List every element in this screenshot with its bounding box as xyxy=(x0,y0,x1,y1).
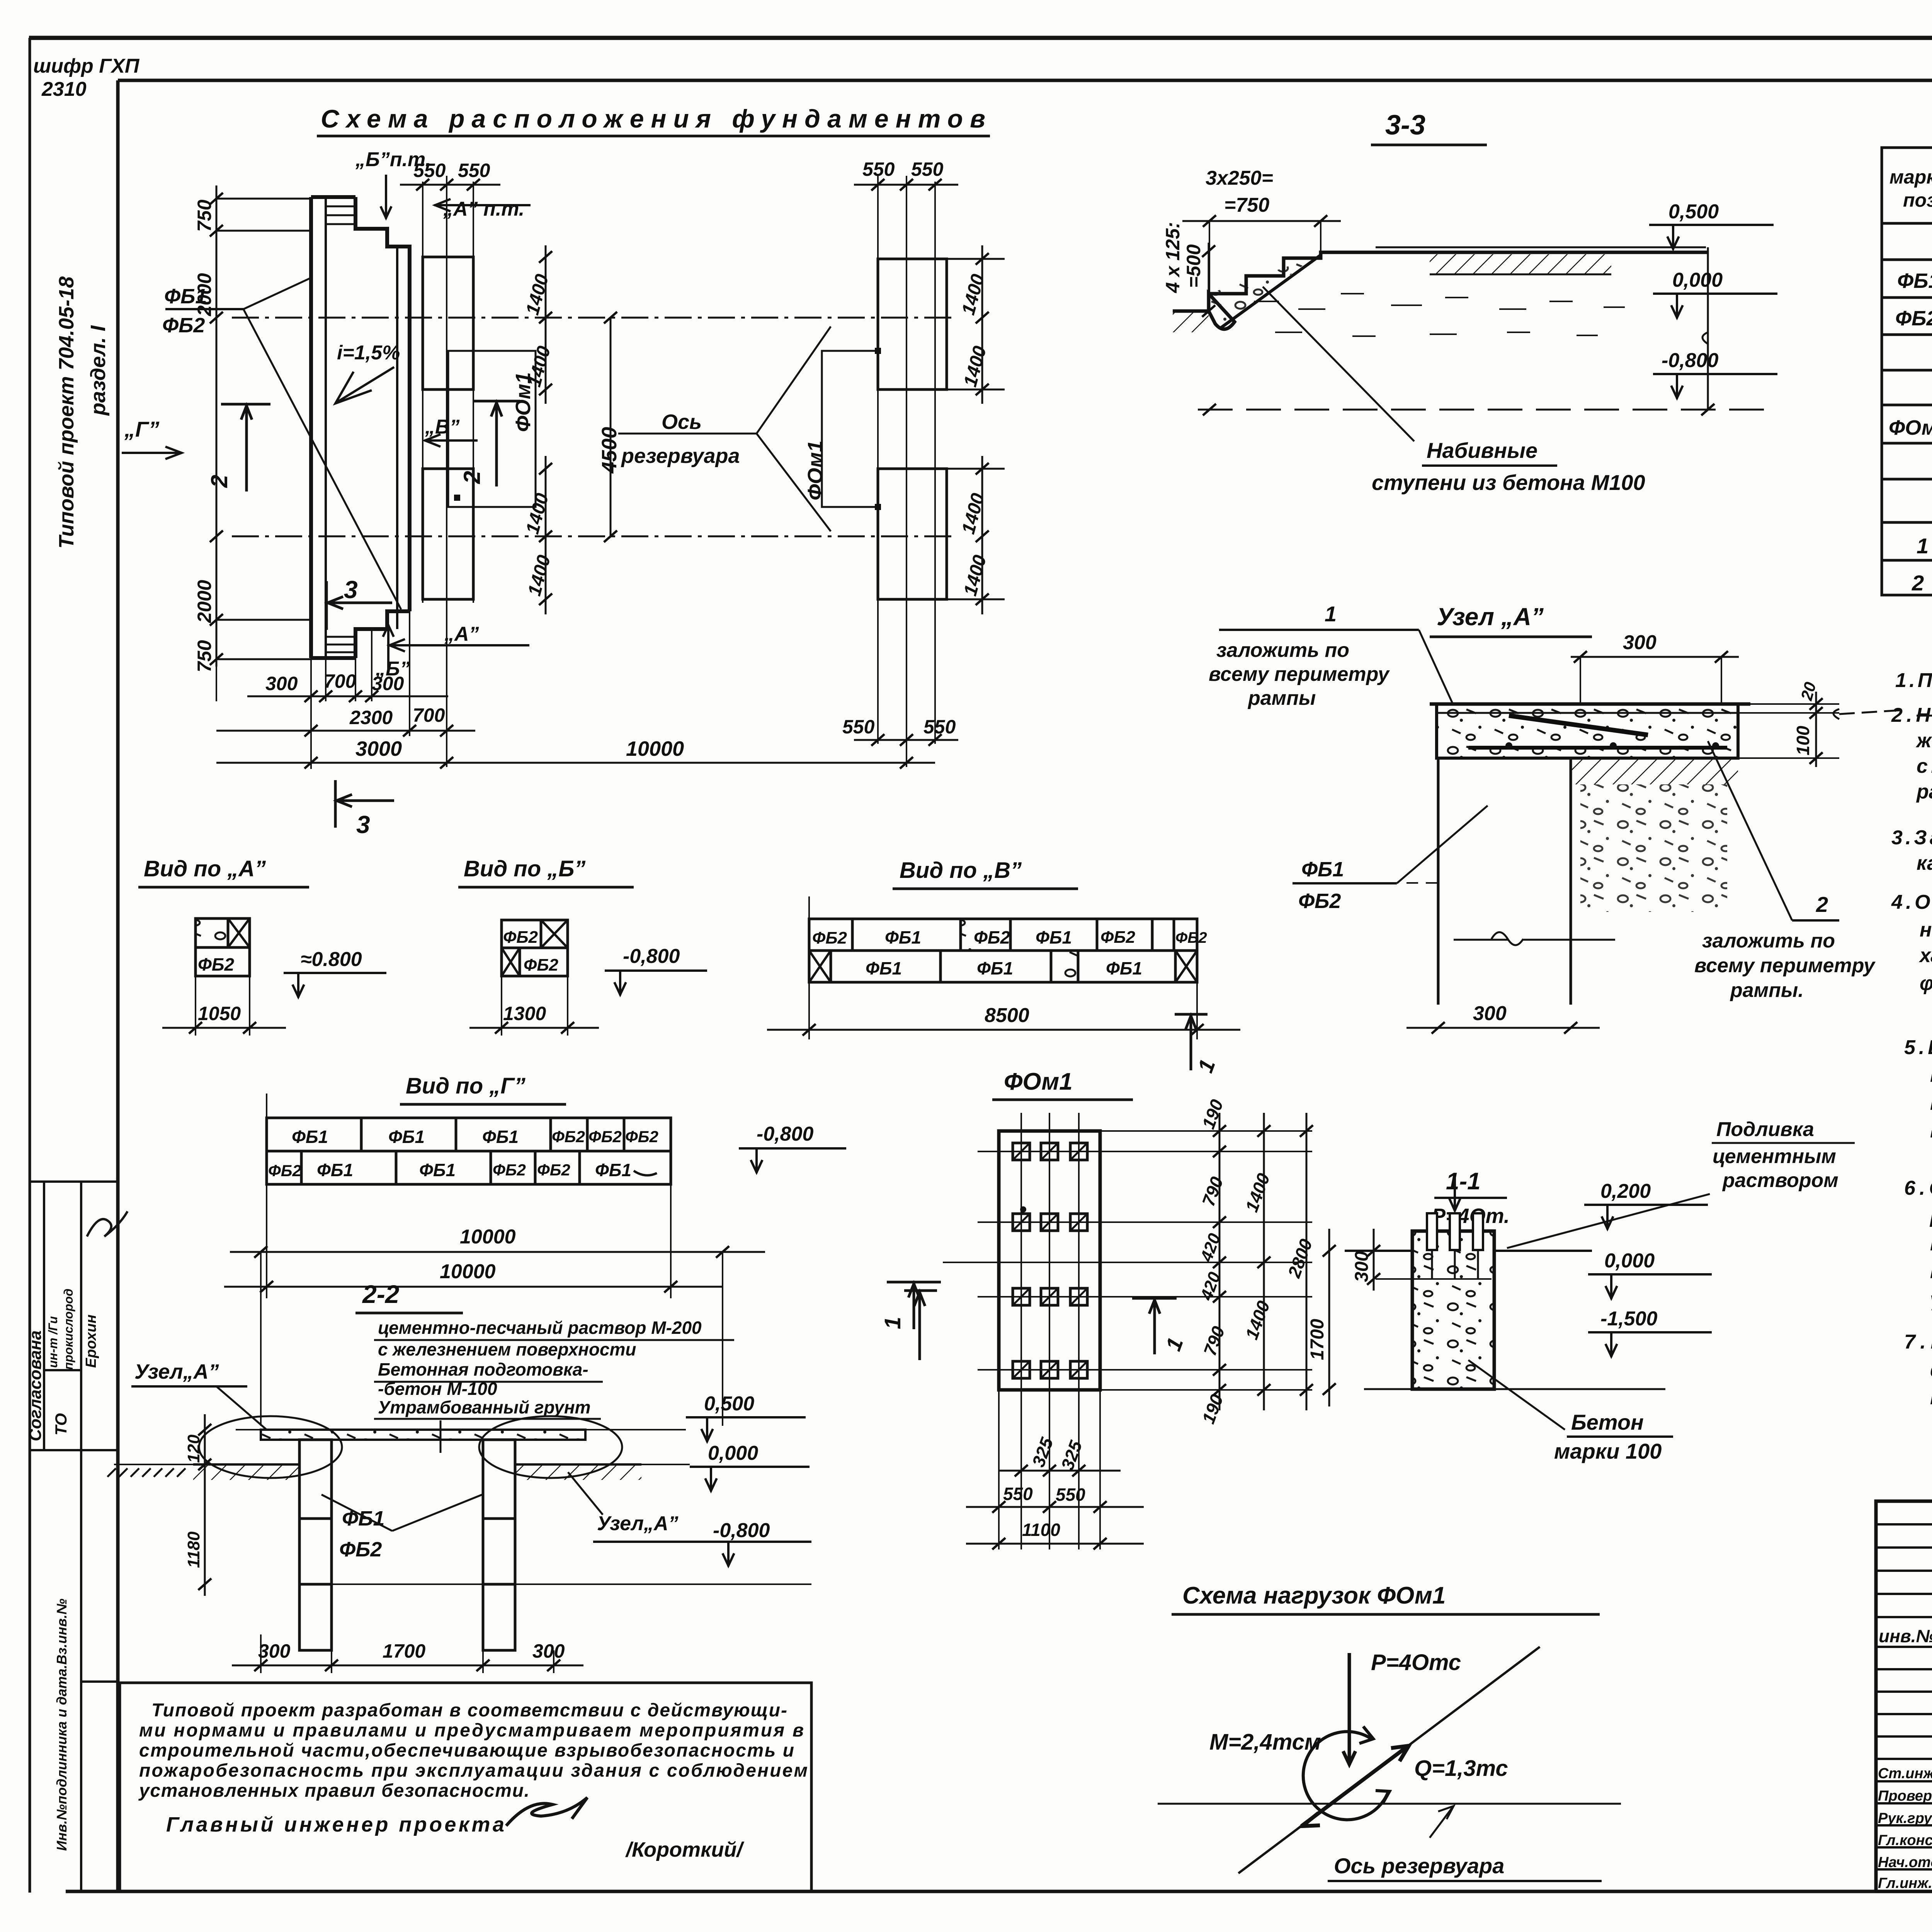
view G wall bottom course xyxy=(267,1151,671,1184)
view G wall top course xyxy=(267,1118,671,1151)
dim 550/550 top-left xyxy=(400,184,500,186)
svg-text:ФБ1: ФБ1 xyxy=(866,958,902,978)
vertical force arrow xyxy=(1343,1653,1355,1765)
svg-text:Инв.№подлинника и дата.Вз.инв.: Инв.№подлинника и дата.Вз.инв.№ xyxy=(54,1599,70,1851)
svg-text:2000: 2000 xyxy=(194,273,215,316)
right wall section 2-2 xyxy=(483,1440,515,1650)
anchor squares row 3 xyxy=(1013,1288,1087,1305)
left group inner dims 1400/1400 (rotated) xyxy=(545,245,547,404)
svg-text:Схема нагрузок ФОм1: Схема нагрузок ФОм1 xyxy=(1182,1582,1446,1609)
svg-text:≈0.800: ≈0.800 xyxy=(301,948,362,971)
svg-text:2310: 2310 xyxy=(41,78,87,100)
oval around left slab end xyxy=(199,1416,342,1478)
svg-text:550: 550 xyxy=(862,158,895,180)
anchor squares row 4 xyxy=(1013,1361,1087,1378)
svg-text:120: 120 xyxy=(184,1434,203,1463)
svg-text:ФОм1: ФОм1 xyxy=(1004,1068,1073,1095)
svg-text:Узел„А”: Узел„А” xyxy=(134,1360,219,1383)
svg-text:ФБ2: ФБ2 xyxy=(493,1161,526,1179)
svg-text:Узел„А”: Узел„А” xyxy=(597,1512,679,1535)
left block wall verticals xyxy=(1438,758,1571,1005)
svg-text:i=1,5%: i=1,5% xyxy=(337,342,400,364)
dim 1700 rotated 1-1 xyxy=(1328,1229,1330,1406)
right dim chain 2 FOm1: 1400 1400 xyxy=(1263,1113,1265,1410)
bottom dim row 3: 3000 and 10000 xyxy=(216,762,935,764)
dim 8500 view V xyxy=(809,896,1197,1039)
foundation rect left upper xyxy=(423,257,473,389)
bottom dim row 1: 300 700 300 xyxy=(247,696,448,697)
svg-text:750: 750 xyxy=(194,199,215,232)
slab rectangle with speckle xyxy=(1437,704,1738,758)
left stamp rows xyxy=(1876,1524,1932,1869)
speckle block xyxy=(197,920,227,947)
svg-text:Ось резервуара: Ось резервуара xyxy=(1334,1854,1504,1878)
svg-text:раздел. I: раздел. I xyxy=(87,325,110,416)
svg-text:ФБ1: ФБ1 xyxy=(388,1127,425,1147)
svg-text:1: 1 xyxy=(1917,534,1929,558)
svg-text:-0,800: -0,800 xyxy=(623,945,680,968)
svg-text:марки 100: марки 100 xyxy=(1554,1439,1662,1463)
bottom reference dashed line xyxy=(1198,409,1770,411)
svg-text:непучинистые,непросадочные гру: непучинистые,непросадочные грунты со сле… xyxy=(1920,919,1932,941)
bottom dim row 2: 2300 700 xyxy=(216,730,475,732)
hatch marks at left ground xyxy=(107,1468,185,1477)
svg-text:ФБ1: ФБ1 xyxy=(1301,858,1344,881)
svg-text:300: 300 xyxy=(1473,1002,1507,1025)
svg-text:3-3: 3-3 xyxy=(1385,110,1425,141)
svg-text:3000: 3000 xyxy=(355,737,402,760)
ground line left xyxy=(193,1463,299,1466)
svg-text:инв.№: инв.№ xyxy=(1879,1626,1932,1646)
svg-text:„Г”: „Г” xyxy=(124,417,159,441)
section mark 1 right of 2-2 xyxy=(887,1282,941,1329)
node dot left xyxy=(454,495,460,501)
left wall section 2-2 xyxy=(299,1440,332,1650)
svg-text:1050: 1050 xyxy=(198,1003,241,1024)
svg-text:Ерохин: Ерохин xyxy=(83,1315,99,1368)
svg-text:резервуара: резервуара xyxy=(621,444,740,468)
section mark 3 lower xyxy=(335,780,394,828)
ground line right xyxy=(515,1463,641,1466)
svg-text:ФБ2: ФБ2 xyxy=(268,1162,301,1180)
svg-text:„В”: „В” xyxy=(425,416,460,438)
svg-text:Гл.инж.пр.: Гл.инж.пр. xyxy=(1878,1875,1932,1891)
svg-text:/Короткий/: /Короткий/ xyxy=(625,1838,744,1861)
svg-text:ФБ1: ФБ1 xyxy=(1106,958,1142,978)
slope under steps xyxy=(1221,255,1321,328)
reservoir axis lower (dash-dot) xyxy=(232,536,954,537)
svg-text:Вид по „В”: Вид по „В” xyxy=(900,858,1022,883)
svg-text:ФОм1: ФОм1 xyxy=(804,440,827,500)
svg-text:550: 550 xyxy=(413,160,446,181)
svg-text:Гл.констр.: Гл.констр. xyxy=(1878,1832,1932,1849)
svg-text:ТО: ТО xyxy=(52,1413,70,1435)
svg-text:1100: 1100 xyxy=(1022,1520,1060,1540)
svg-text:2: 2 xyxy=(206,475,232,488)
section mark 2 right xyxy=(474,401,520,486)
view A blocks xyxy=(196,918,250,976)
svg-text:ФБ2: ФБ2 xyxy=(552,1128,585,1146)
svg-text:ФБ1: ФБ1 xyxy=(292,1127,328,1147)
svg-text:характеристиками:: характеристиками: xyxy=(1918,944,1932,967)
svg-text:ФБ2: ФБ2 xyxy=(162,314,205,337)
svg-text:установленных правил безопас: установленных правил безопасности. xyxy=(138,1781,529,1801)
svg-text:марка,: марка, xyxy=(1889,166,1932,188)
svg-text:Узел „А”: Узел „А” xyxy=(1437,603,1544,631)
dim 300 rotated 1-1 xyxy=(1373,1229,1375,1291)
dim 550/550 bottom-right xyxy=(854,739,958,741)
svg-text:3х250=: 3х250= xyxy=(1206,167,1273,189)
svg-text:заложить по: заложить по xyxy=(1216,639,1349,662)
svg-text:Схема расположения фундаментов: Схема расположения фундаментов xyxy=(321,104,985,133)
svg-text:100: 100 xyxy=(1793,726,1813,755)
svg-text:550: 550 xyxy=(923,716,956,738)
svg-text:4500: 4500 xyxy=(598,427,621,474)
svg-text:550: 550 xyxy=(1056,1485,1085,1505)
oval around right slab end xyxy=(479,1416,622,1478)
svg-text:Набивные: Набивные xyxy=(1427,438,1537,463)
dim 300 top of node A xyxy=(1571,656,1739,658)
svg-text:-бетон М-100: -бетон М-100 xyxy=(378,1379,497,1399)
svg-text:Вид по „А”: Вид по „А” xyxy=(144,856,266,881)
svg-text:3: 3 xyxy=(344,576,358,604)
svg-text:ФБ1: ФБ1 xyxy=(317,1160,353,1180)
svg-text:ФБ2: ФБ2 xyxy=(1298,889,1341,913)
title block outer xyxy=(1876,1501,1932,1891)
dim 10000 above section 2-2 xyxy=(230,1251,765,1253)
svg-text:Типовой проект разработан в: Типовой проект разработан в соответствии… xyxy=(151,1700,787,1721)
svg-text:-0,800: -0,800 xyxy=(757,1123,814,1145)
right dim chain 1 FOm1: 190 790 420 420 790 190 xyxy=(1219,1113,1221,1410)
svg-text:раствором: раствором xyxy=(1722,1169,1838,1192)
svg-text:0,200: 0,200 xyxy=(1600,1180,1651,1202)
X block xyxy=(228,918,250,947)
equipment foundation outline right xyxy=(822,351,878,507)
svg-text:1300: 1300 xyxy=(503,1003,546,1024)
svg-text:всему периметру: всему периметру xyxy=(1694,954,1876,977)
svg-text:заложить по: заложить по xyxy=(1702,930,1835,952)
svg-text:300: 300 xyxy=(372,673,404,694)
dim 10000 view G xyxy=(267,1094,671,1298)
svg-text:10000: 10000 xyxy=(626,737,684,760)
svg-text:цементным: цементным xyxy=(1713,1145,1836,1168)
svg-text:1.Пояснительную записку см. ли: 1.Пояснительную записку см. лист. 5 xyxy=(1895,669,1932,692)
svg-text:8500: 8500 xyxy=(985,1004,1029,1027)
svg-text:ФБ2: ФБ2 xyxy=(1100,928,1136,947)
svg-text:перевязкой швов. Вертикальные: перевязкой швов. Вертикальные швы между … xyxy=(1930,1092,1932,1114)
X and speckle blocks view V xyxy=(809,951,1197,982)
svg-text:1700: 1700 xyxy=(383,1640,425,1662)
svg-text:ФБ2: ФБ2 xyxy=(588,1128,622,1146)
svg-text:Главный инженер проекта: Главный инженер проекта xyxy=(166,1813,504,1836)
svg-text:300: 300 xyxy=(1352,1251,1372,1282)
svg-text:300: 300 xyxy=(1623,631,1656,654)
mark 1 near row3 right xyxy=(1132,1298,1177,1354)
svg-text:рампы: рампы xyxy=(1247,687,1316,709)
svg-text:Вид по „Г”: Вид по „Г” xyxy=(406,1073,526,1099)
dim 4500 (rotated) xyxy=(610,318,612,536)
svg-text:Нач.отд.: Нач.отд. xyxy=(1878,1854,1932,1871)
svg-text:ФБ1: ФБ1 xyxy=(977,958,1013,978)
svg-text:Вид по „Б”: Вид по „Б” xyxy=(464,856,585,881)
dim 1050 view A xyxy=(196,976,250,1036)
mesh line bottom of slab xyxy=(1468,746,1727,750)
svg-text:Утрамбованный грунт: Утрамбованный грунт xyxy=(378,1397,591,1417)
foundation rect right lower xyxy=(878,469,947,599)
bottom dim chain B FOm1: 550 550 xyxy=(966,1506,1144,1508)
right reference vertical xyxy=(1707,247,1709,410)
surface double line xyxy=(1376,247,1706,248)
svg-text:-0,800: -0,800 xyxy=(1662,349,1719,372)
ramp stepped right wall top xyxy=(355,197,410,270)
anchor bolts 1-1 xyxy=(1427,1213,1483,1250)
svg-text:ФБ1: ФБ1 xyxy=(1897,269,1932,293)
svg-text:ФБ1: ФБ1 xyxy=(885,927,921,947)
spec table grid xyxy=(1882,148,1932,595)
svg-text:на цементном растворе марки 5: на цементном растворе марки 50 с обязате… xyxy=(1930,1064,1932,1087)
svg-text:10000: 10000 xyxy=(460,1226,516,1248)
dim 120 rotated (left) xyxy=(204,1414,206,1480)
section mark 3 upper xyxy=(327,581,392,630)
svg-text:2: 2 xyxy=(1816,892,1828,917)
svg-text:цементно-песчаный раствор М-20: цементно-песчаный раствор М-200 xyxy=(378,1318,702,1338)
svg-text:ФБ1: ФБ1 xyxy=(595,1160,631,1180)
view V wall top course xyxy=(809,919,1197,951)
reservoir axis upper (dash-dot) xyxy=(232,317,954,319)
dims 20 and 100 right side xyxy=(1815,692,1817,767)
svg-text:Ось: Ось xyxy=(662,410,702,434)
svg-text:550: 550 xyxy=(842,716,875,738)
callout beton marki 100 xyxy=(1468,1360,1565,1430)
column axes FOm1 xyxy=(1021,1113,1079,1549)
inclined reservoir axis line xyxy=(1238,1647,1540,1873)
leader from callouts to slab xyxy=(440,1420,442,1453)
bottom line 1-1 xyxy=(1364,1388,1665,1390)
svg-text:ка земли.: ка земли. xyxy=(1917,852,1932,874)
column axis lines right group xyxy=(878,176,935,767)
bottom dims 300 1700 300 section 2-2 xyxy=(261,1634,554,1673)
dashed soil texture xyxy=(1256,294,1625,336)
ramp stairs top xyxy=(326,206,355,224)
bottom dim chain A FOm1: 325 325 xyxy=(999,1470,1121,1472)
foundation rect left lower xyxy=(423,469,473,599)
svg-text:=500: =500 xyxy=(1183,244,1204,288)
svg-text:2300: 2300 xyxy=(349,707,393,728)
svg-text:с железнением поверхности: с железнением поверхности xyxy=(378,1339,636,1359)
svg-text:ФБ2: ФБ2 xyxy=(503,928,538,947)
svg-text:ФБ2: ФБ2 xyxy=(1175,929,1207,946)
break symbol on wall xyxy=(1492,932,1523,946)
svg-text:ФБ2: ФБ2 xyxy=(625,1128,658,1146)
svg-text:нением слоями не более 200мм: нением слоями не более 200мм до xyxy=(1930,1260,1932,1283)
svg-text:1: 1 xyxy=(1325,602,1337,626)
P arrow on 1-1 xyxy=(1449,1178,1460,1211)
svg-text:2000: 2000 xyxy=(194,580,215,623)
small arrow end view G xyxy=(634,1171,657,1175)
svg-text:фундаментные болты устанавли: фундаментные болты устанавливать в xyxy=(1930,1359,1932,1381)
slope arrow xyxy=(335,367,394,403)
dim 1300 view B xyxy=(502,976,568,1036)
view V wall bottom course xyxy=(809,951,1197,982)
section mark 1 top of FOm1 xyxy=(1175,1014,1207,1070)
svg-text:ФБ2: ФБ2 xyxy=(198,954,234,975)
right group vertical dim chain 1400/1400 lower xyxy=(947,456,1005,614)
svg-text:1: 1 xyxy=(880,1317,905,1329)
svg-text:-0,800: -0,800 xyxy=(713,1519,770,1542)
svg-text:2-2: 2-2 xyxy=(362,1280,400,1308)
ground steps profile xyxy=(1173,252,1708,329)
axis dash line below left wall xyxy=(1406,882,1445,884)
svg-text:0,000: 0,000 xyxy=(708,1442,758,1464)
ground hatch left of steps xyxy=(1173,311,1209,332)
svg-text:выполнять из бетона марки 10: выполнять из бетона марки 100. xyxy=(1930,1120,1932,1142)
svg-text:300: 300 xyxy=(532,1640,565,1662)
extension verticals FOm1 bottom xyxy=(999,1390,1100,1549)
svg-text:300: 300 xyxy=(265,673,298,694)
os rezervuara label with arrow xyxy=(1430,1806,1454,1838)
svg-text:„А” п.т.: „А” п.т. xyxy=(443,198,524,220)
svg-text:700: 700 xyxy=(413,704,445,726)
svg-text:ФБ1: ФБ1 xyxy=(482,1127,519,1147)
signature squiggle xyxy=(87,1211,128,1236)
road surface hatch band xyxy=(1430,254,1611,274)
dim 550/550 top-right xyxy=(854,184,958,186)
FOm1 rect xyxy=(999,1131,1100,1390)
svg-text:ФБ2: ФБ2 xyxy=(339,1538,382,1561)
svg-text:всему периметру: всему периметру xyxy=(1209,663,1390,685)
section mark 1 left of FOm1 xyxy=(904,1291,937,1360)
svg-text:рампы.: рампы. xyxy=(1730,979,1804,1002)
svg-text:прокислород: прокислород xyxy=(61,1289,75,1370)
svg-text:Q=1,3тс: Q=1,3тс xyxy=(1414,1756,1508,1781)
svg-text:700: 700 xyxy=(324,670,356,692)
callout nabivnye stupeni xyxy=(1263,287,1414,441)
svg-text:1180: 1180 xyxy=(184,1531,203,1568)
svg-text:1700: 1700 xyxy=(1307,1319,1328,1360)
bottom dim chain C FOm1: 1100 xyxy=(966,1543,1144,1545)
svg-text:ин-т /Ги: ин-т /Ги xyxy=(46,1316,60,1368)
svg-text:ФБ1: ФБ1 xyxy=(1036,927,1072,947)
svg-text:Проверил: Проверил xyxy=(1878,1788,1932,1804)
svg-text:строительной части,обеспечива: строительной части,обеспечивающие взрыво… xyxy=(139,1740,794,1761)
svg-text:Ст.инж.: Ст.инж. xyxy=(1878,1765,1932,1782)
svg-text:550: 550 xyxy=(1003,1484,1033,1504)
svg-text:550: 550 xyxy=(458,160,490,181)
svg-text:ФБ1: ФБ1 xyxy=(342,1507,384,1530)
ramp right double wall xyxy=(397,247,410,629)
svg-text:рампы).: рампы). xyxy=(1916,781,1932,803)
slab top surface lines xyxy=(1430,702,1750,706)
view B blocks xyxy=(502,920,568,976)
svg-text:М=2,4тсм: М=2,4тсм xyxy=(1209,1730,1321,1755)
svg-text:4 х 125:: 4 х 125: xyxy=(1162,222,1184,293)
svg-text:0,500: 0,500 xyxy=(1668,201,1719,223)
svg-text:Р=4Отс: Р=4Отс xyxy=(1371,1650,1461,1675)
right dim chain 3 FOm1: 2800 xyxy=(1306,1113,1308,1410)
extension lines below ramp xyxy=(216,611,410,769)
svg-text:ФБ2: ФБ2 xyxy=(524,956,559,975)
svg-text:0,500: 0,500 xyxy=(704,1393,754,1415)
svg-text:Бетон: Бетон xyxy=(1571,1410,1644,1434)
ramp outline: left double wall xyxy=(311,197,355,658)
svg-text:ФБ2: ФБ2 xyxy=(812,929,847,947)
svg-text:просверленные скважины согла: просверленные скважины согласно СН. 471-… xyxy=(1930,1386,1932,1409)
svg-text:Рук.груп.: Рук.груп. xyxy=(1878,1810,1932,1827)
svg-text:-1,500: -1,500 xyxy=(1600,1308,1658,1330)
dim 1180 rotated (left) xyxy=(204,1480,206,1596)
ramp stairs bottom xyxy=(326,637,355,652)
equipment foundation outline left xyxy=(448,351,536,507)
foundation rect right upper xyxy=(878,259,947,389)
svg-text:ФБ1: ФБ1 xyxy=(419,1160,456,1180)
slab of section 2-2 xyxy=(261,1430,585,1440)
left margin stamp boxes xyxy=(30,1182,118,1891)
svg-text:ФОм1: ФОм1 xyxy=(1889,416,1932,439)
svg-text:шифр ГХП: шифр ГХП xyxy=(33,55,140,77)
row axes FOm1 xyxy=(943,1131,1312,1390)
ramp stepped right wall bottom xyxy=(355,611,410,658)
svg-text:2: 2 xyxy=(1912,571,1924,595)
section mark 2 upper-left xyxy=(221,404,270,492)
speckled soil fill below hatch xyxy=(1580,784,1727,912)
svg-text:0,000: 0,000 xyxy=(1672,269,1723,291)
svg-text:Подливка: Подливка xyxy=(1716,1118,1814,1141)
svg-text:φⁿ=28, Сⁿ=0,02кгс/см², Е=150к: φⁿ=28, Сⁿ=0,02кгс/см², Е=150кгс/см², γ₀=… xyxy=(1920,972,1932,995)
dim 300 bottom of node A xyxy=(1406,1027,1600,1029)
svg-text:Р=4От.: Р=4От. xyxy=(1432,1204,1510,1228)
inclined force arrow Q xyxy=(1301,1746,1409,1826)
svg-text:0,000: 0,000 xyxy=(1604,1250,1655,1272)
svg-text:10000: 10000 xyxy=(440,1260,496,1283)
svg-text:750: 750 xyxy=(194,640,215,672)
svg-text:Типовой проект 704.05-18: Типовой проект 704.05-18 xyxy=(55,276,78,549)
speckle in steps xyxy=(1209,252,1321,327)
horizontal base line xyxy=(1158,1803,1621,1805)
1-1 foundation block xyxy=(1412,1231,1494,1389)
column axis lines left group xyxy=(423,176,473,767)
moment arc xyxy=(1303,1731,1389,1820)
node dots right xyxy=(875,348,881,354)
svg-text:Согласована: Согласована xyxy=(26,1330,45,1441)
right group vertical dim chain 1400/1400 upper xyxy=(947,245,1005,404)
svg-text:=750: =750 xyxy=(1224,194,1269,216)
svg-text:поз.: поз. xyxy=(1903,189,1932,211)
svg-text:ФБ2: ФБ2 xyxy=(537,1161,570,1179)
svg-text:550: 550 xyxy=(911,158,944,180)
reference lines from levels to section xyxy=(236,1429,686,1430)
ground line 1-1 xyxy=(1345,1250,1412,1252)
svg-text:ФБ2: ФБ2 xyxy=(1895,307,1932,330)
svg-text:ФБ2: ФБ2 xyxy=(974,927,1010,947)
svg-text:3: 3 xyxy=(356,811,370,838)
svg-text:„А”: „А” xyxy=(444,623,479,645)
svg-text:Бетонная подготовка-: Бетонная подготовка- xyxy=(378,1359,588,1379)
svg-text:рампы производить грунтом б: рампы производить грунтом без включения … xyxy=(1929,1205,1932,1227)
svg-text:300: 300 xyxy=(258,1640,291,1662)
rebar line in slab xyxy=(1509,716,1648,735)
svg-text:1-1: 1-1 xyxy=(1446,1168,1481,1195)
svg-text:жидкого кислорода емкостью 60т: жидкого кислорода емкостью 60т. /Вариант… xyxy=(1915,730,1932,752)
svg-text:тельного мусора и растительн: тельного мусора и растительного грунта с… xyxy=(1930,1233,1932,1255)
svg-text:ступени из бетона М100: ступени из бетона М100 xyxy=(1372,470,1645,495)
ground hatch under right part of slab xyxy=(1571,758,1738,784)
svg-text:γск=1,6 т /м³: γск=1,6 т /м³ xyxy=(1930,1288,1932,1311)
left vertical dimension chain xyxy=(216,185,311,667)
anchor squares row 1 xyxy=(1013,1143,1087,1160)
anchor squares row 2 xyxy=(1013,1214,1087,1231)
